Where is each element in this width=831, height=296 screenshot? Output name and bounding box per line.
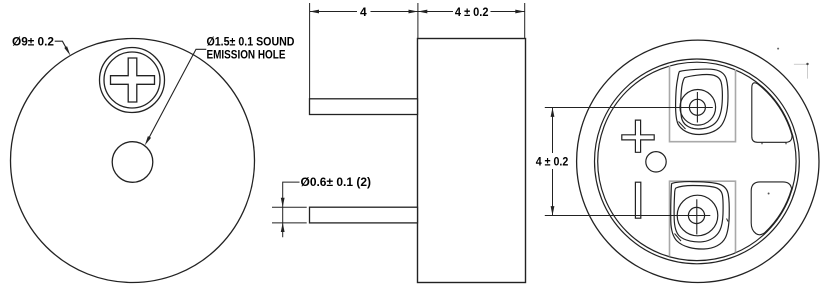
front view: screw cross outline bbox=[111, 58, 155, 102]
rear view: bottom pin large circle bbox=[677, 195, 718, 236]
rear view: top pin crosshair vertical bbox=[696, 92, 698, 123]
side view: bottom lead bbox=[310, 207, 418, 223]
rear view: plus symbol bbox=[622, 120, 654, 152]
rear view: bottom terminal outer blob bbox=[671, 182, 730, 249]
rear view: top terminal frame (grey) bbox=[670, 66, 736, 142]
svg-text:Ø9± 0.2: Ø9± 0.2 bbox=[12, 34, 54, 48]
svg-text:Ø1.5± 0.1 SOUND: Ø1.5± 0.1 SOUND bbox=[207, 35, 295, 49]
rear view: center hole bbox=[646, 152, 666, 172]
leader for dia 0.6 bbox=[283, 182, 300, 237]
extension line right (body right) bbox=[524, 3, 526, 39]
rear view: bottom pin circle bbox=[688, 207, 704, 223]
front view: body circle bbox=[11, 39, 255, 283]
rear view: top terminal middle blob bbox=[681, 75, 723, 129]
extension line middle (body left) bbox=[417, 3, 419, 39]
side view: body rectangle bbox=[418, 39, 526, 283]
rear view: top terminal seam bbox=[679, 122, 686, 130]
dimension line "4 +/- 0.2" top bbox=[418, 11, 453, 13]
rear view: extension line bottom pin bbox=[545, 215, 711, 217]
extension line left (lead tip) bbox=[309, 3, 311, 99]
svg-text:4: 4 bbox=[360, 5, 367, 19]
rear view: top terminal outer blob bbox=[676, 69, 728, 134]
front view: screw head outer circle bbox=[100, 48, 165, 113]
rear view: extension line top pin bbox=[545, 107, 713, 109]
rear view: bottom terminal frame (grey) bbox=[670, 181, 736, 256]
rear view: right-top wing foot tick left bbox=[761, 142, 763, 144]
rear view: minus bar bbox=[635, 182, 640, 218]
rear view: top pin circle bbox=[689, 99, 705, 115]
rear view: bottom pin crosshair vertical bbox=[696, 199, 698, 234]
artifact: faint corner mark top right bbox=[794, 63, 808, 65]
side view: top lead bbox=[310, 99, 418, 115]
rear view: inner circle inner line bbox=[598, 62, 796, 260]
rear view: inner circle outer line bbox=[595, 59, 800, 264]
leader for dia 9 label bbox=[55, 41, 69, 52]
rear view: right-bottom wing bbox=[751, 182, 791, 235]
rear view: bottom terminal seam left bbox=[675, 234, 682, 242]
artifact: faint dot upper right bbox=[777, 48, 779, 50]
rear view: right-top wing foot tick right bbox=[785, 142, 787, 144]
artifact: small dot in right-bottom wing bbox=[768, 193, 770, 195]
front view: screw head inner circle bbox=[104, 52, 160, 108]
svg-text:4 ± 0.2: 4 ± 0.2 bbox=[455, 5, 489, 19]
svg-text:4 ± 0.2: 4 ± 0.2 bbox=[536, 155, 569, 169]
rear view: right-top wing bbox=[752, 83, 792, 142]
svg-text:Ø0.6± 0.1 (2): Ø0.6± 0.1 (2) bbox=[301, 175, 372, 189]
rear view: top pin large circle bbox=[680, 90, 716, 126]
dimension line "4" bbox=[310, 11, 357, 13]
svg-text:EMISSION HOLE: EMISSION HOLE bbox=[207, 48, 286, 62]
rear view: dimension line 4 +/- 0.2 vertical bbox=[552, 108, 554, 154]
extension line lead bottom edge bbox=[272, 222, 307, 224]
rear view: outer circle bbox=[577, 40, 819, 282]
front view: sound emission hole bbox=[112, 142, 153, 183]
leader for sound emission hole label bbox=[148, 49, 206, 139]
rear view: bottom terminal seam right bbox=[727, 219, 729, 222]
rear view: bottom terminal middle blob bbox=[674, 186, 723, 242]
extension line lead top edge bbox=[272, 206, 307, 208]
